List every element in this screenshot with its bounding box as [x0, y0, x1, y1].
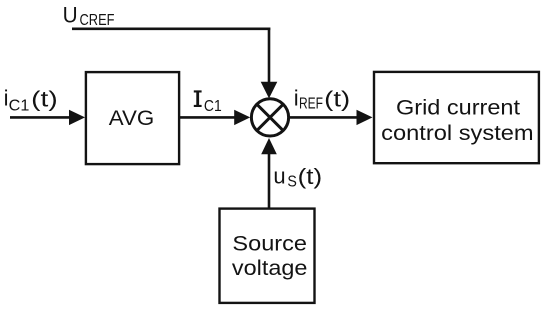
arrowhead into multiplier left	[234, 110, 250, 125]
svg-text:(t): (t)	[324, 86, 350, 111]
svg-text:S: S	[287, 173, 297, 190]
svg-text:i: i	[294, 86, 299, 111]
svg-text:(t): (t)	[31, 86, 58, 111]
svg-text:(t): (t)	[298, 164, 323, 189]
arrowhead into multiplier bottom	[261, 138, 277, 154]
multiplier M1	[251, 99, 288, 136]
svg-text:control system: control system	[381, 121, 534, 145]
svg-text:U: U	[63, 3, 78, 28]
wire input to AVG	[10, 116, 71, 119]
node uS(t) label	[273, 163, 322, 190]
wire multiplier to grid control block	[290, 116, 358, 119]
arrowhead into multiplier top	[261, 82, 278, 99]
wire UCREF vertical drop	[268, 28, 271, 87]
svg-text:AVG: AVG	[109, 106, 155, 130]
svg-text:REF: REF	[299, 96, 323, 113]
wire source voltage to multiplier	[268, 150, 271, 208]
node IC1 label	[194, 90, 222, 115]
svg-text:u: u	[273, 163, 285, 188]
svg-text:C1: C1	[204, 98, 222, 115]
svg-text:Grid current: Grid current	[396, 96, 520, 120]
arrowhead into grid control block	[357, 110, 373, 125]
block AVG	[86, 72, 179, 164]
svg-text:C1: C1	[9, 97, 30, 114]
arrowhead into AVG	[69, 110, 85, 125]
node iREF(t) label	[294, 86, 350, 113]
svg-text:CREF: CREF	[80, 12, 115, 29]
node UCREF label	[63, 3, 115, 29]
block source voltage	[220, 209, 315, 303]
svg-text:Source: Source	[232, 232, 307, 256]
wire AVG to multiplier	[180, 116, 236, 119]
wire UCREF horizontal	[72, 27, 270, 30]
block grid current control system	[374, 72, 539, 163]
node iC1(t) label	[4, 86, 58, 115]
svg-text:voltage: voltage	[232, 256, 308, 280]
